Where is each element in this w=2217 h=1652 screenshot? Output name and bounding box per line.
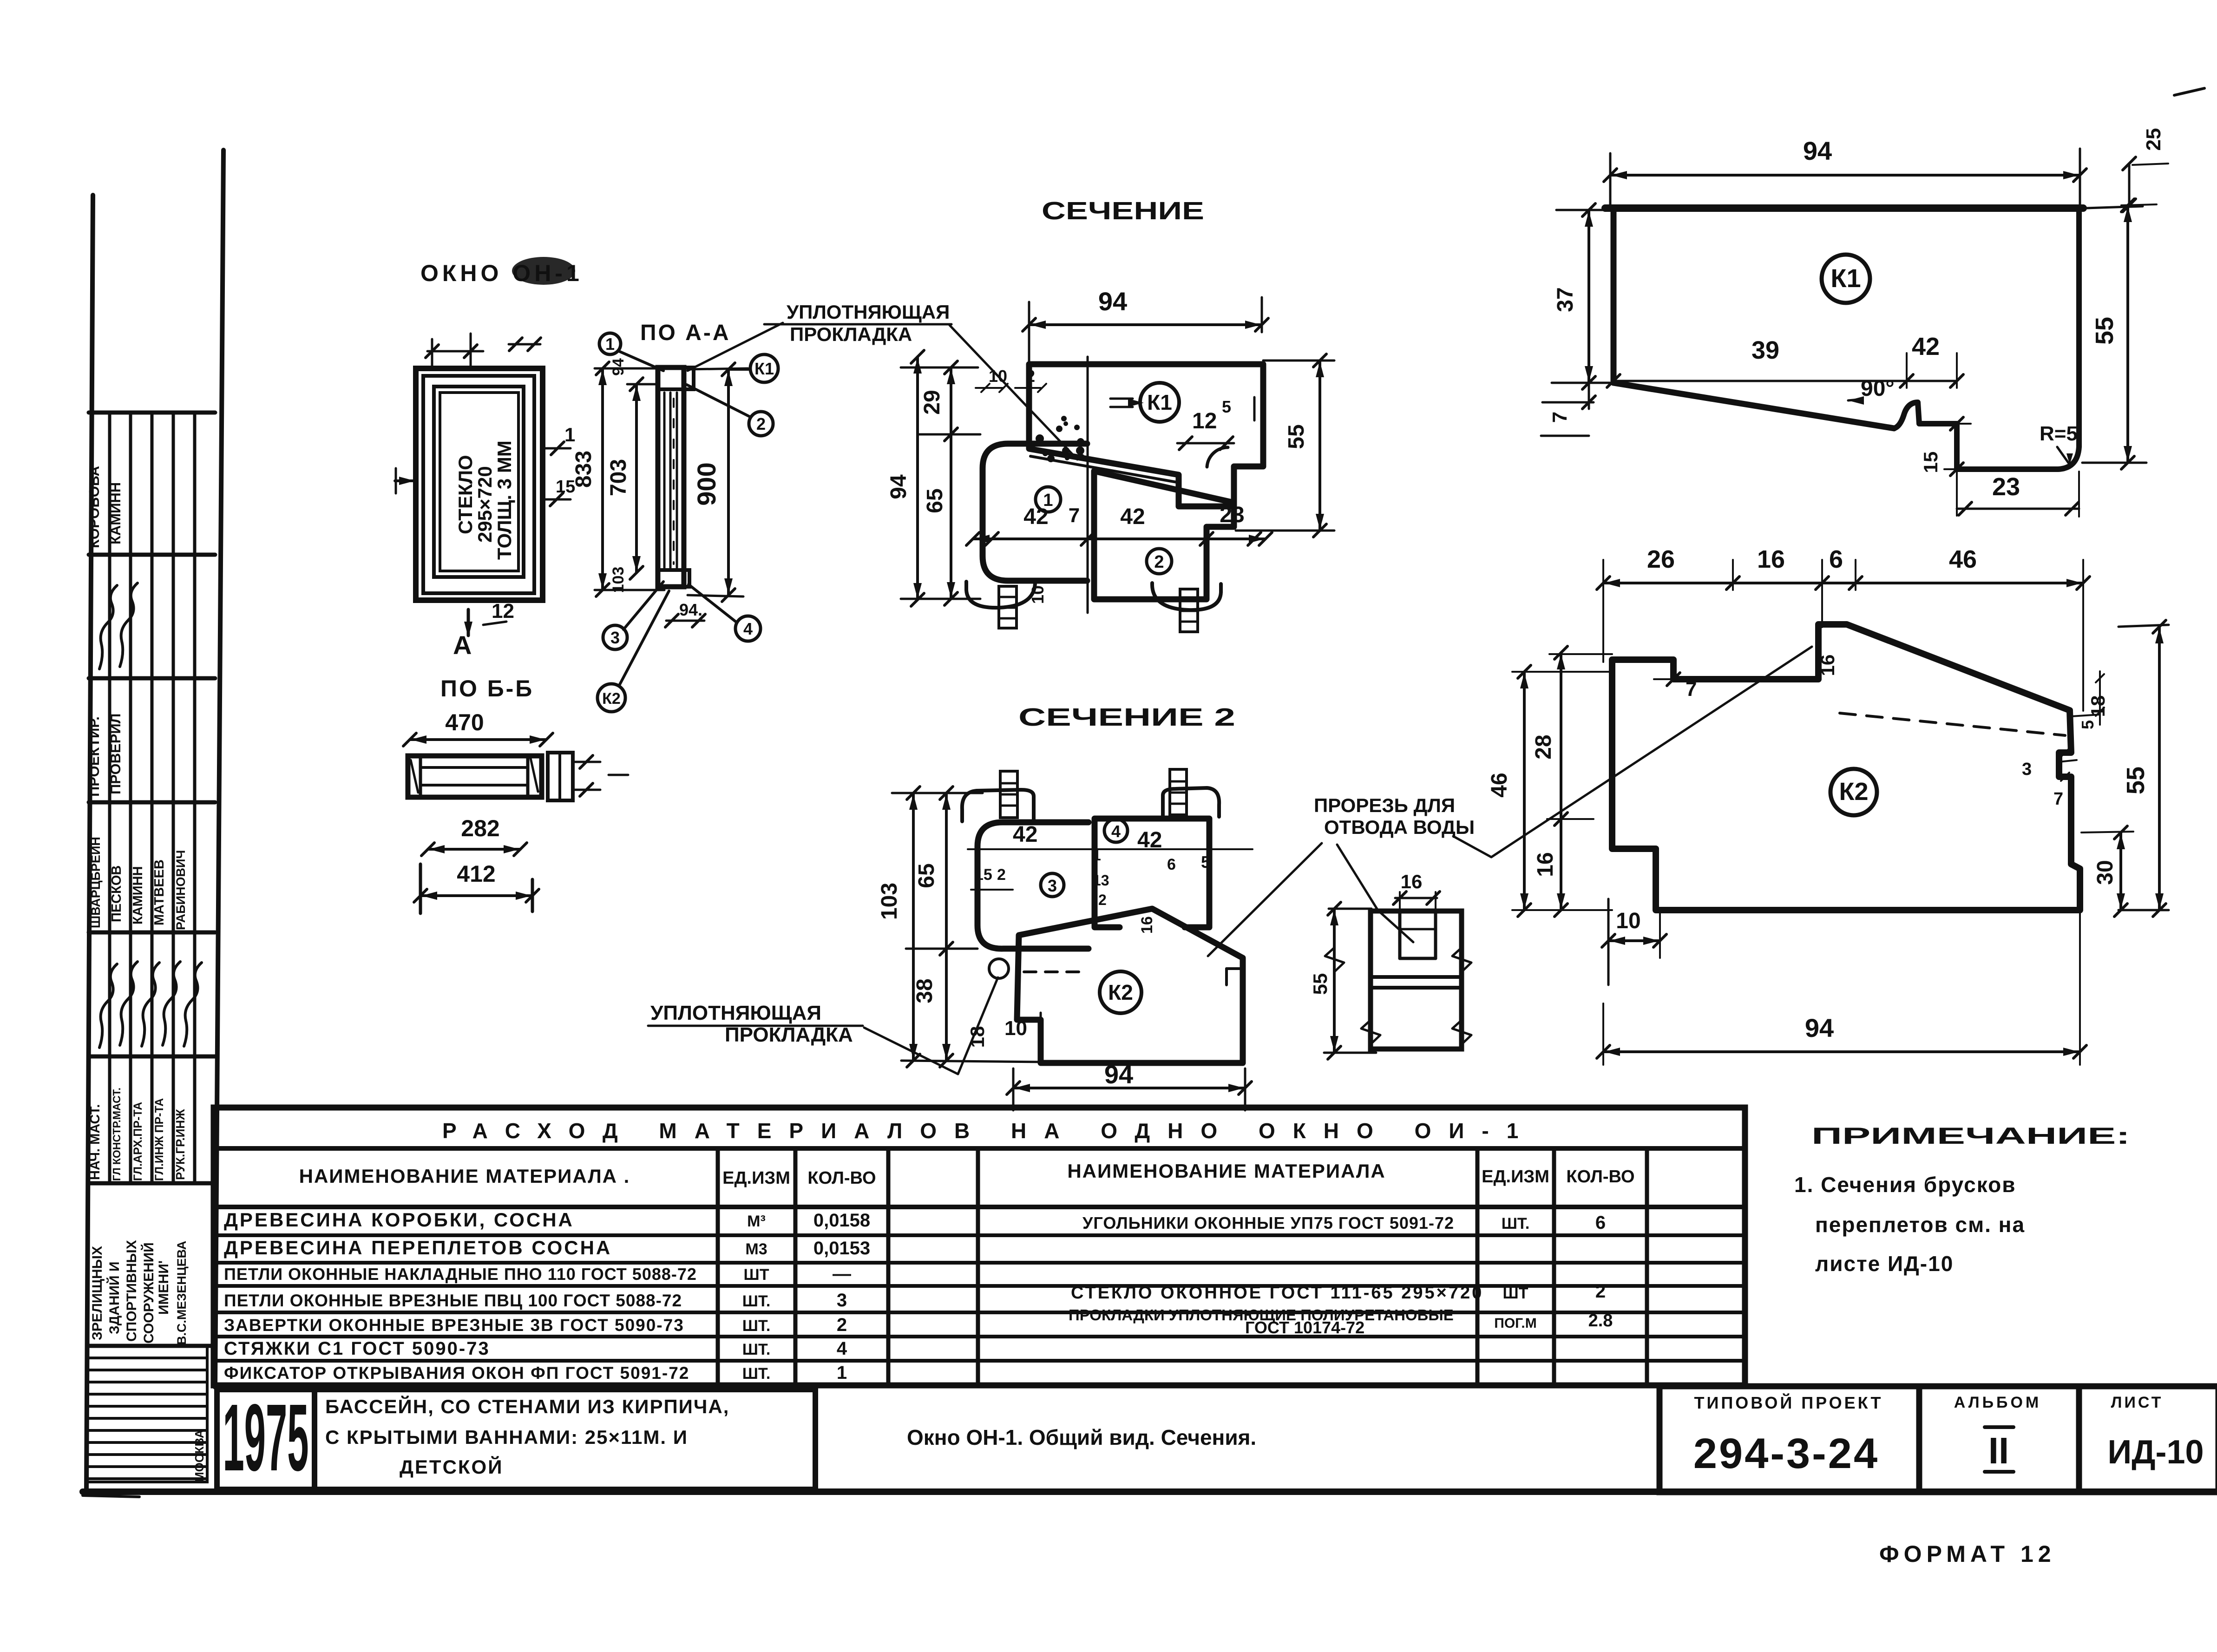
svg-text:КАМИНН: КАМИНН [131,866,145,924]
svg-text:16: 16 [1817,655,1838,676]
dim 55 right of section 1 [1236,354,1334,537]
примечание note text [1794,1173,2025,1276]
window elevation frame [416,368,543,600]
svg-text:РАСХОД МАТЕРИАЛОВ НА ОДНО: РАСХОД МАТЕРИАЛОВ НА ОДНО ОКНО ОИ-1 [442,1119,1536,1143]
svg-text:833: 833 [571,451,596,488]
callout circle 3 [603,582,663,649]
svg-text:ШТ.: ШТ. [1502,1215,1530,1232]
svg-text:К2: К2 [1839,778,1869,806]
svg-text:1. Сечения брусков: 1. Сечения брусков [1794,1173,2016,1197]
svg-text:90°: 90° [1861,376,1895,401]
К2 callout circle [1830,769,1877,815]
title block: лист box [2079,1386,2217,1492]
svg-text:ЗАВЕРТКИ ОКОННЫЕ ВРЕЗНЫЕ 3В ГО: ЗАВЕРТКИ ОКОННЫЕ ВРЕЗНЫЕ 3В ГОСТ 5090-73 [224,1316,684,1335]
sash profile 4 [1095,819,1209,927]
svg-text:РАБИНОВИЧ: РАБИНОВИЧ [174,850,188,930]
svg-text:12: 12 [1192,409,1217,433]
label прорезь для отвода воды [1208,647,1812,956]
svg-text:103: 103 [877,883,902,920]
svg-text:55: 55 [1309,973,1331,995]
svg-text:1: 1 [837,1363,847,1383]
svg-text:ШТ.: ШТ. [742,1292,771,1310]
right hinge lug section 1 [1152,583,1221,632]
stamp labels band: ПРОЕКТИР. / ПРОВЕРИЛ [86,714,124,797]
title СЕЧЕНИЕ 2 [1018,703,1235,731]
svg-text:ШТ: ШТ [1503,1285,1528,1302]
К1 dim 55 right [2082,199,2146,469]
svg-text:1: 1 [564,424,575,446]
svg-text:ШТ: ШТ [744,1266,769,1284]
thin level line section 2 [968,848,1253,850]
label уплотняющая прокладка (top) [688,301,1077,459]
svg-text:М³: М³ [747,1213,766,1230]
svg-text:2.8: 2.8 [1588,1311,1613,1331]
К2 dim 55 right [2119,620,2169,917]
svg-text:СТЯЖКИ С1 ГОСТ 5090-73: СТЯЖКИ С1 ГОСТ 5090-73 [224,1338,490,1359]
svg-text:2: 2 [1026,367,1035,386]
svg-text:ШТ.: ШТ. [742,1317,771,1335]
svg-text:СООРУЖЕНИЙ: СООРУЖЕНИЙ [141,1242,157,1344]
table rows left half [224,1209,870,1383]
stamp org text: ЗРЕЛИЩНЫХ ЗДАНИЙ И СПОРТИВНЫХ СООРУЖЕНИЙ [90,1240,189,1345]
label уплотняющая прокладка (bottom) [648,977,998,1074]
svg-text:КОЛ-ВО: КОЛ-ВО [807,1168,876,1188]
К1 detail profile [1605,208,2083,469]
small arrow marks section 1 [1110,397,1254,420]
svg-text:16: 16 [1401,871,1423,892]
svg-text:ПО Б-Б: ПО Б-Б [440,675,534,701]
svg-text:15: 15 [1920,452,1942,473]
svg-text:КАМИНН: КАМИНН [107,482,124,544]
table rows right half [1069,1213,1613,1337]
small number labels section 2 [971,847,1210,934]
К1 dim 15 [1920,417,1971,476]
stamp table grid [89,413,215,1346]
sash 3 top lug [962,771,1034,821]
К2 left dims 46 28 16 [1487,646,1612,917]
window right marks 1 / 15 [543,424,575,506]
callout circle 4 [689,584,761,641]
svg-text:94: 94 [1805,1013,1834,1042]
формат 12 note [1879,1541,2056,1567]
К2 dim row 26 16 6 46 [1597,545,2090,711]
gasket circle section 2 [989,959,1009,978]
callout К1 in section 1 [1140,383,1179,422]
svg-text:3: 3 [2022,760,2032,779]
title block: object name box [315,1390,815,1489]
callout circle 1 [599,333,663,371]
svg-text:1: 1 [605,334,615,354]
label ПО Б-Б [440,675,534,701]
svg-text:94.: 94. [679,600,702,619]
svg-text:УПЛОТНЯЮЩАЯ: УПЛОТНЯЮЩАЯ [787,301,950,323]
К2 sill profile section 2 [1017,909,1243,1063]
svg-text:5: 5 [1222,397,1231,416]
dim 94 top of section 1 [1023,287,1268,367]
svg-text:переплетов см. на: переплетов см. на [1815,1213,2025,1237]
svg-text:СПОРТИВНЫХ: СПОРТИВНЫХ [124,1240,139,1342]
svg-text:К2: К2 [602,690,621,708]
svg-text:УГОЛЬНИКИ ОКОННЫЕ УП75 ГОСТ 5: УГОЛЬНИКИ ОКОННЫЕ УП75 ГОСТ 5091-72 [1082,1213,1454,1232]
svg-text:42: 42 [1137,828,1162,852]
svg-text:42: 42 [1912,333,1940,361]
svg-text:46: 46 [1487,773,1512,797]
svg-text:БАССЕЙН, СО СТЕНАМИ ИЗ КИРПИЧА: БАССЕЙН, СО СТЕНАМИ ИЗ КИРПИЧА, [325,1395,729,1417]
title block: типовой проект box [1659,1386,1919,1492]
svg-text:ЕД.ИЗМ: ЕД.ИЗМ [722,1168,790,1188]
svg-text:ПРОКЛАДКА: ПРОКЛАДКА [790,323,912,345]
svg-text:25: 25 [2142,128,2165,151]
svg-text:К1: К1 [1830,263,1861,293]
svg-text:39: 39 [1751,336,1779,364]
svg-text:ГЛ.АРХ.ПР-ТА: ГЛ.АРХ.ПР-ТА [131,1102,144,1181]
svg-text:ГОСТ 10174-72: ГОСТ 10174-72 [1245,1318,1364,1337]
svg-text:23: 23 [1992,473,2020,501]
svg-text:42: 42 [1013,822,1037,847]
slot detail dim 16 [1393,871,1440,910]
dim 12 notch section 1 [1177,397,1234,450]
svg-text:5: 5 [1201,852,1210,872]
title ОКНО ОН-1 [420,257,583,286]
section Б-Б bar [408,756,542,797]
small label 10 bottom section 1 [1028,585,1047,604]
table title РАСХОД МАТЕРИАЛОВ НА ОДНО ОКНО ОИ-1 [442,1119,1536,1143]
svg-text:4: 4 [837,1338,847,1359]
svg-text:7: 7 [2053,789,2063,809]
svg-text:94: 94 [1104,1060,1133,1089]
svg-text:295×720: 295×720 [474,466,496,543]
svg-text:R=5: R=5 [2040,422,2078,445]
small dims 10 2 top left section 1 [976,367,1046,392]
sash profile 2 [1094,471,1234,599]
svg-text:37: 37 [1553,287,1578,312]
К1 detail dim 94 [1604,136,2086,210]
svg-text:6: 6 [1167,856,1176,873]
svg-text:55: 55 [2122,767,2150,794]
svg-text:94: 94 [1803,136,1832,165]
svg-text:3: 3 [837,1290,847,1311]
А-А bar [658,367,694,587]
svg-text:листе ИД-10: листе ИД-10 [1815,1252,1954,1276]
sash 4 top lug [1163,769,1219,817]
svg-text:II: II [1988,1430,2009,1471]
svg-text:30: 30 [2093,860,2118,885]
К2 detail profile [1612,624,2080,910]
dim 282 [421,815,527,856]
svg-text:НАЧ. МАСТ.: НАЧ. МАСТ. [88,1104,103,1180]
К2 dim 7 notch [1654,673,1700,701]
svg-text:94: 94 [886,474,911,499]
К1 dim 23 [1957,472,2079,517]
svg-text:ДРЕВЕСИНА КОРОБКИ, СОСНА: ДРЕВЕСИНА КОРОБКИ, СОСНА [224,1209,574,1231]
svg-text:СЕЧЕНИЕ: СЕЧЕНИЕ [1042,197,1204,225]
примечание heading [1811,1123,2130,1149]
materials table vertical lines [718,1148,1647,1385]
svg-text:0,0158: 0,0158 [813,1210,870,1231]
svg-text:ПРОКЛАДКА: ПРОКЛАДКА [725,1023,853,1046]
svg-text:ШТ.: ШТ. [742,1341,771,1358]
table header right [1067,1160,1634,1187]
svg-text:КОЛ-ВО: КОЛ-ВО [1566,1167,1634,1187]
svg-text:ГЛ КОНСТР.МАСТ.: ГЛ КОНСТР.МАСТ. [111,1088,123,1181]
К2 tongue label 16 [1817,655,1838,676]
svg-text:МАТВЕЕВ: МАТВЕЕВ [152,859,167,925]
dim 703 [606,378,659,579]
svg-text:ПРОРЕЗЬ ДЛЯ: ПРОРЕЗЬ ДЛЯ [1314,794,1455,816]
svg-text:55: 55 [1284,424,1309,449]
svg-text:ОТВОДА ВОДЫ: ОТВОДА ВОДЫ [1324,816,1475,838]
svg-text:1: 1 [1093,847,1101,864]
window left arrow mark [395,468,415,493]
dim 900 [688,363,748,602]
stamp roles band: НАЧ.МАСТ. и др. [88,1088,187,1181]
svg-text:28: 28 [1531,734,1556,759]
section mark A bottom [453,600,514,660]
svg-text:К1: К1 [754,359,774,378]
svg-text:65: 65 [923,488,947,513]
svg-text:ПЕТЛИ ОКОННЫЕ НАКЛАДНЫЕ ПНО 1: ПЕТЛИ ОКОННЫЕ НАКЛАДНЫЕ ПНО 110 ГОСТ 508… [224,1265,697,1284]
window top dim marks [426,334,541,369]
svg-text:46: 46 [1949,545,1977,573]
callout circle К1 [730,354,778,382]
svg-text:16: 16 [1533,852,1558,877]
svg-text:ПОГ.М: ПОГ.М [1494,1316,1536,1331]
slot detail box [1371,909,1462,1049]
svg-text:ПРОВЕРИЛ: ПРОВЕРИЛ [107,714,124,794]
svg-text:2: 2 [1595,1281,1606,1302]
stamp signatures band 2 [99,962,202,1048]
svg-text:29: 29 [920,390,945,414]
svg-text:К2: К2 [1108,980,1133,1004]
callout 3 section 2 [1041,873,1064,897]
К1 label R=5 [2040,422,2078,465]
window glass label (rotated) [454,440,515,560]
К2 right small dims 18 5 3 7 [2022,671,2109,809]
sheet bottom border [83,1492,2217,1497]
labels 42 42 section 2 [1013,822,1162,852]
К1 dims 37 and 7 left [1541,203,1610,436]
svg-text:6: 6 [1595,1213,1606,1233]
svg-text:2: 2 [1098,892,1107,908]
svg-text:12: 12 [492,600,514,623]
svg-text:НАИМЕНОВАНИЕ МАТЕРИАЛА .: НАИМЕНОВАНИЕ МАТЕРИАЛА . [299,1165,630,1187]
svg-text:16: 16 [1138,916,1156,934]
svg-text:ГЛ.ИНЖ ПР-ТА: ГЛ.ИНЖ ПР-ТА [153,1098,166,1181]
svg-text:282: 282 [461,815,499,841]
materials table outer border [214,1108,1745,1385]
gasket dots section 1 [1036,416,1084,462]
К1 callout circle [1822,255,1870,303]
svg-text:3: 3 [610,628,620,647]
callout circle 2 [687,385,773,436]
svg-text:ШВАРЦБРЕЙН: ШВАРЦБРЕЙН [88,837,103,928]
section 1 centerline [1087,357,1089,613]
dim 94 bottom of А-А [665,600,705,627]
К1 small top right dim 25 [2121,88,2204,212]
svg-text:6: 6 [1829,545,1843,573]
svg-text:42: 42 [1120,505,1145,529]
svg-text:ЗДАНИЙ И: ЗДАНИЙ И [106,1261,122,1334]
svg-text:2: 2 [997,866,1006,884]
svg-text:ДЕТСКОЙ: ДЕТСКОЙ [400,1455,503,1478]
svg-text:ПЕСКОВ: ПЕСКОВ [109,865,124,922]
svg-text:23: 23 [1220,503,1244,527]
svg-text:К1: К1 [1147,390,1172,414]
callout 2 in section 1 [1147,549,1172,574]
svg-text:10: 10 [1616,909,1640,933]
dims 29 / 65 left of section 1 [901,361,980,605]
svg-text:0,0153: 0,0153 [813,1238,870,1259]
svg-text:1975: 1975 [223,1384,309,1491]
К2 dim 10 bottom left [1602,899,1666,985]
К1 head profile (section 1) [1029,364,1263,506]
svg-text:10: 10 [989,367,1007,386]
stamp labels band: КОРОБОВА / КАМИНН [86,466,124,548]
svg-text:РУК.ГР.ИНЖ: РУК.ГР.ИНЖ [173,1109,187,1180]
svg-text:55: 55 [2091,317,2119,345]
svg-text:470: 470 [445,709,484,735]
small dims 94 / 103 on А-А [610,358,627,593]
svg-text:3: 3 [1048,876,1057,895]
svg-text:ПРИМЕЧАНИЕ:: ПРИМЕЧАНИЕ: [1811,1123,2130,1149]
svg-text:2: 2 [756,414,766,433]
dim 94 bottom section 2 [1007,1060,1252,1110]
dim row 42 7 42 23 section 1 [966,503,1272,545]
sash profile 1 [983,444,1087,581]
sheet left border line [86,195,93,1490]
svg-text:4: 4 [1111,822,1121,841]
svg-text:СТЕКЛО ОКОННОЕ ГОСТ 111-65 29: СТЕКЛО ОКОННОЕ ГОСТ 111-65 295×720 [1071,1283,1483,1303]
callout К2 section 2 [1100,971,1141,1013]
dims 10 18 bottom left section 2 [966,1013,1041,1063]
svg-text:УПЛОТНЯЮЩАЯ: УПЛОТНЯЮЩАЯ [650,1002,821,1024]
title СЕЧЕНИЕ [1042,197,1204,225]
К1 dim 39 42 row [1607,333,1963,388]
svg-text:ШТ.: ШТ. [742,1365,771,1383]
svg-text:ЕД.ИЗМ: ЕД.ИЗМ [1482,1167,1549,1187]
table header left [299,1165,876,1188]
slot detail dim 55 [1309,902,1376,1059]
К2 dim 30 right [2081,826,2133,917]
svg-text:В.С.МЕЗЕНЦЕВА: В.С.МЕЗЕНЦЕВА [175,1241,189,1345]
label ПО А-А [640,321,730,345]
svg-text:13: 13 [1093,872,1109,889]
svg-text:—: — [833,1264,851,1284]
callout circle К2 [597,591,669,712]
svg-text:ТИПОВОЙ ПРОЕКТ: ТИПОВОЙ ПРОЕКТ [1694,1393,1883,1412]
svg-text:103: 103 [610,567,627,593]
svg-text:НАИМЕНОВАНИЕ МАТЕРИАЛА: НАИМЕНОВАНИЕ МАТЕРИАЛА [1067,1160,1385,1182]
svg-text:ИМЕНИ': ИМЕНИ' [156,1260,171,1315]
stamp signatures band 1 [99,583,138,669]
К2 dim 94 bottom [1597,913,2086,1065]
stamp hatched box (Москва) [87,1346,207,1482]
svg-text:5: 5 [2078,720,2097,729]
svg-text:КОРОБОВА: КОРОБОВА [86,466,102,548]
dims 103 65 38 left of section 2 [877,787,1045,1067]
svg-text:7: 7 [1686,678,1697,701]
dim 470 [403,709,553,746]
svg-text:900: 900 [692,462,721,505]
slot detail break marks [1325,948,1471,1044]
svg-text:ЗРЕЛИЩНЫХ: ЗРЕЛИЩНЫХ [90,1246,105,1340]
svg-text:СТЕКЛО: СТЕКЛО [454,455,476,534]
svg-text:94: 94 [1098,287,1127,316]
dim 412 [414,861,539,913]
svg-text:ТОЛЩ. 3 ММ: ТОЛЩ. 3 ММ [493,440,515,560]
svg-text:СЕЧЕНИЕ 2: СЕЧЕНИЕ 2 [1018,703,1235,731]
svg-text:26: 26 [1647,545,1675,573]
materials table horizontal lines [214,1148,1745,1361]
svg-text:ДРЕВЕСИНА ПЕРЕПЛЕТОВ СОСНА: ДРЕВЕСИНА ПЕРЕПЛЕТОВ СОСНА [224,1237,612,1259]
svg-text:МОСКВА: МОСКВА [192,1429,206,1482]
callout 4 section 2 [1104,819,1128,842]
svg-text:A: A [453,630,472,660]
svg-text:ПРОЕКТИР.: ПРОЕКТИР. [86,716,102,797]
svg-text:1: 1 [1043,491,1053,510]
svg-text:7: 7 [1069,504,1080,527]
svg-text:АЛЬБОМ: АЛЬБОМ [1954,1394,2041,1411]
svg-text:2: 2 [837,1315,847,1335]
svg-text:ФИКСАТОР ОТКРЫВАНИЯ ОКОН ФП ГО: ФИКСАТОР ОТКРЫВАНИЯ ОКОН ФП ГОСТ 5091-72 [224,1364,689,1383]
stamp names band: ШВАРЦБРЕЙН ПЕСКОВ КАМИНН МАТВЕЕВ РАБИНОВИЧ [88,837,188,930]
svg-text:10: 10 [1004,1017,1027,1040]
dim 94 left of section 1 [886,350,924,606]
svg-text:15: 15 [975,866,992,884]
svg-text:294-3-24: 294-3-24 [1693,1430,1879,1477]
title block: альбом box [1919,1386,2079,1492]
dashed line section 2 [1024,970,1082,973]
svg-text:ПЕТЛИ ОКОННЫЕ ВРЕЗНЫЕ ПВЦ 100: ПЕТЛИ ОКОННЫЕ ВРЕЗНЫЕ ПВЦ 100 ГОСТ 5088-… [224,1291,682,1310]
svg-text:7: 7 [1548,412,1571,423]
title block: year 1975 box [217,1384,315,1491]
title block: sheet name box [815,1386,1659,1492]
svg-text:94: 94 [610,358,627,376]
svg-text:38: 38 [912,978,937,1003]
К2 dashed slot line [1840,713,2065,735]
svg-text:2: 2 [1154,552,1164,572]
sash profile 3 [977,822,1089,949]
svg-text:Окно ОН-1. Общий вид. Сечения.: Окно ОН-1. Общий вид. Сечения. [907,1425,1256,1449]
sheet inner vertical border (stamp right edge) [215,150,223,1387]
svg-text:703: 703 [606,459,631,496]
svg-text:С КРЫТЫМИ ВАННАМИ: 25×11М. И: С КРЫТЫМИ ВАННАМИ: 25×11М. И [325,1426,688,1448]
svg-text:ФОРМАТ 12: ФОРМАТ 12 [1879,1541,2056,1567]
К1 label 90 deg [1848,376,1895,405]
svg-text:ЛИСТ: ЛИСТ [2111,1394,2164,1411]
svg-text:16: 16 [1757,545,1785,573]
svg-text:10: 10 [1028,585,1047,604]
callout 1 in section 1 [1036,487,1061,512]
svg-text:412: 412 [457,861,495,887]
Б-Б jamb piece [548,753,628,800]
dim 833 [571,362,664,597]
svg-text:М3: М3 [745,1240,767,1258]
left hinge lug section 1 [966,581,1035,628]
svg-text:ПО А-А: ПО А-А [640,321,730,345]
svg-text:4: 4 [743,619,753,638]
svg-text:65: 65 [914,863,939,888]
svg-text:ИД-10: ИД-10 [2107,1434,2204,1471]
